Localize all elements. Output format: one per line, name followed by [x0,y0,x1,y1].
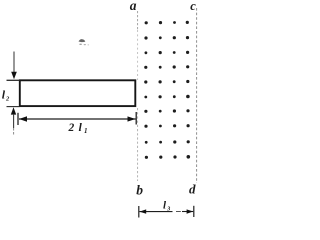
dimension l3 right arrowhead [187,209,194,213]
dimension 2l1 right tick [135,112,137,125]
dimension 2l1 right arrowhead [128,116,136,121]
dimension l3 line with gap [140,211,173,213]
svg-text:1: 1 [84,127,88,135]
svg-text:2: 2 [5,96,10,103]
dimension 2l1 line [19,118,136,120]
rectangle bottom edge thickening [19,105,136,107]
svg-text:d: d [189,182,196,197]
smudge artifact [79,39,90,45]
svg-text:l: l [79,120,83,134]
magnetic field dot grid [144,21,190,159]
dimension 2l1 left tick [17,113,19,125]
dimension 2l1 left arrowhead [19,116,27,121]
bottom extension line [7,106,20,108]
svg-text:a: a [130,0,137,13]
dashed boundary line a-b [137,11,139,30]
svg-text:2: 2 [68,122,75,134]
dashed boundary line c-d [196,8,198,183]
dimension l2 lower leader line [13,114,15,128]
dimension l3 left tick [138,206,140,218]
svg-text:b: b [136,183,143,198]
dimension l2 upper arrowhead (points down) [11,72,17,80]
svg-text:c: c [190,0,196,13]
rectangle loop (conducting bar) [20,80,136,106]
dimension l3 left arrowhead [139,209,146,213]
svg-text:3: 3 [166,207,170,213]
dimension l2 upper leader line [13,52,15,73]
dimension l3 right tick [193,206,195,217]
dimension l2 lower arrowhead (points up) [11,107,16,114]
top extension line [7,79,20,81]
